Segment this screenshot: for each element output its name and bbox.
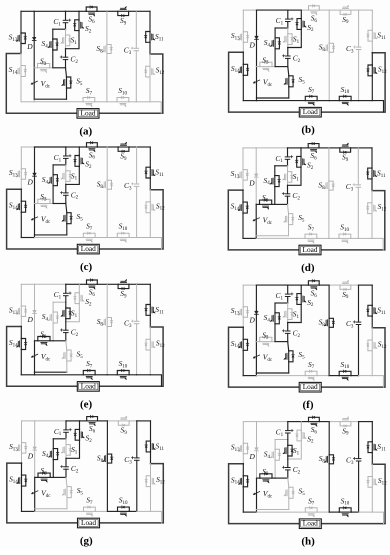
- (g) wire top to diode D: [34, 421, 36, 447]
- (g) wire C3 to bus: [136, 460, 138, 511]
- svg-text:D: D: [248, 316, 255, 325]
- (f) wire mid segment to J2: [275, 341, 288, 343]
- (f) wire top to S2: [300, 285, 302, 294]
- (h) switch S8: [328, 455, 330, 464]
- (e) wire C2 to node J2: [65, 333, 67, 341]
- (f) wire top to S8: [328, 285, 330, 318]
- (h) switch S11: [371, 442, 373, 453]
- (g) wire S11 to node Q: [150, 452, 152, 464]
- (a) wire node N1 to C2: [65, 49, 67, 57]
- (c) wire node Q to S12: [149, 190, 151, 202]
- (h) switch S12: [371, 477, 373, 488]
- (b) wire C2 to node J2: [287, 59, 289, 67]
- (g) wire top rail segment 3: [66, 420, 80, 422]
- (b) wire S5 to inner bottom: [288, 87, 290, 98]
- (d) wire top rail segment 6: [329, 147, 340, 149]
- (b) capacitor C2: [286, 55, 291, 57]
- (h) switch S5: [288, 487, 290, 498]
- (f) diode D: [255, 311, 259, 314]
- (f) switch S14: [242, 339, 244, 350]
- (c) wire node N1 to C2: [65, 184, 67, 192]
- (f) switch S4: [274, 313, 276, 324]
- (g) wire bus segment 2: [35, 510, 84, 512]
- (g) wire inner bottom: [35, 508, 67, 510]
- (d) wire bus segment 4: [329, 237, 339, 239]
- (b) wire top rail segment 5: [319, 9, 329, 11]
- (c) wire top to S2: [78, 147, 80, 156]
- (g) switch S11: [150, 441, 152, 452]
- (h) wire S11 to node Q: [371, 453, 373, 465]
- (g) capacitor C3: [135, 457, 140, 459]
- (h) switch S6: [309, 421, 320, 423]
- (f) wire S12 to bus: [371, 351, 373, 376]
- (c) source Vdc arrow: [32, 217, 38, 220]
- (d) wire Vdc- connector to bus: [255, 236, 257, 239]
- (e) wire left rail upper: [20, 284, 22, 306]
- (b) wire bus segment 5: [351, 100, 359, 102]
- (e) wire bus segment 2: [35, 374, 84, 376]
- (b) wire jog node to S1: [287, 28, 289, 34]
- (d) switch S13: [242, 170, 244, 181]
- (f) wire inner bottom: [256, 372, 288, 374]
- (b) wire node P to S14: [242, 52, 244, 64]
- (e) switch S1: [65, 308, 67, 319]
- (f) wire C2 to node J2: [287, 334, 289, 342]
- (c) wire S12 to bus: [149, 213, 151, 238]
- (b) wire top rail segment 6: [329, 9, 340, 11]
- (g) wire S14 to bus: [21, 486, 23, 511]
- (e) wire Vdc- connector to bus: [34, 372, 36, 375]
- (e) wire top to C3: [136, 284, 138, 321]
- (c) wire S14 to bus: [20, 212, 22, 237]
- (d) wire top rail segment 3: [288, 147, 302, 149]
- svg-text:D: D: [248, 178, 255, 187]
- (e) wire S1 to node N1: [65, 319, 67, 322]
- (h) wire node N1 to C2: [287, 459, 289, 467]
- (g) wire S1 to node N1: [65, 455, 67, 458]
- (a) wire left rail upper: [20, 11, 22, 33]
- (f) wire top rail segment 7: [351, 284, 359, 286]
- (f) switch S2: [300, 294, 302, 305]
- (e) wire node N1 to C2: [65, 322, 67, 330]
- (e) wire S3 node down through Vdc: [34, 341, 36, 372]
- (d) wire C2 to node J2: [287, 196, 289, 204]
- (a) switch S5: [66, 77, 68, 88]
- (b) wire jog to S4: [274, 28, 276, 38]
- (d) switch S4: [274, 176, 276, 187]
- (h) wire D-leg to S3: [257, 477, 260, 479]
- (e) wire output B to load: [99, 327, 163, 386]
- (b) wire S3 to S4 node: [272, 66, 275, 68]
- (e) wire output A to load: [7, 327, 78, 387]
- (c) wire left rail lower: [20, 179, 22, 189]
- (a) wire top rail segment 6: [107, 10, 118, 12]
- (a) wire C1 to jog node: [65, 23, 67, 29]
- (b) wire output A to load: [229, 52, 300, 112]
- (h) wire top rail segment 6: [329, 421, 340, 423]
- (a) switch S8: [106, 45, 108, 54]
- (g) wire top to S8: [106, 421, 108, 454]
- svg-text:Load: Load: [81, 381, 96, 390]
- (h) wire top rail segment 8: [359, 421, 373, 423]
- (f) wire S8 to bus: [328, 327, 330, 375]
- (g) wire D-leg to S3: [35, 476, 38, 478]
- (a) wire bus segment 2: [34, 101, 83, 103]
- (h) wire S4 to node J2: [274, 460, 276, 478]
- (d) wire jog to S4 branch: [275, 165, 288, 167]
- (f) wire left rail lower: [242, 317, 244, 327]
- (g) wire C2 to node J2: [65, 469, 67, 477]
- (e) switch S11: [149, 305, 151, 316]
- (a) switch S10: [117, 101, 129, 103]
- (c) wire D-leg to S3: [35, 203, 38, 205]
- (g) wire S12 to bus: [150, 487, 152, 512]
- (c) wire top rail segment 4: [79, 146, 86, 148]
- (g) wire bus segment 1: [22, 510, 35, 512]
- (c) switch S9: [118, 146, 129, 148]
- (g) wire top to C3: [136, 421, 138, 458]
- (a) wire bus segment 6: [136, 101, 150, 103]
- (h) wire S14 to bus: [242, 487, 244, 512]
- (f) switch S13: [242, 307, 244, 318]
- (e) wire jog to S4 branch: [53, 301, 66, 303]
- (c) capacitor C2: [64, 192, 69, 194]
- (e) wire C3 to bus: [136, 324, 138, 375]
- (a) wire top to S2: [78, 11, 80, 19]
- (a) wire inner bottom: [34, 98, 66, 100]
- (g) wire J2 to S5: [66, 477, 67, 486]
- (g) wire node P to S14: [21, 463, 23, 475]
- (f) wire right rail upper: [371, 285, 373, 305]
- (f) load box: [299, 382, 321, 392]
- (a) wire top rail segment 8: [136, 10, 150, 12]
- (a) capacitor C2: [63, 56, 68, 58]
- (g) switch S8: [106, 454, 108, 463]
- (h) wire C1 to jog node: [287, 434, 289, 440]
- (f) capacitor C3: [356, 321, 361, 323]
- (g) capacitor C1: [64, 429, 69, 431]
- (d) wire S12 to bus: [371, 214, 373, 239]
- (c) wire top rail segment 5: [97, 146, 107, 148]
- (f) wire S3 node down through Vdc: [255, 342, 257, 373]
- (e) switch S8: [106, 318, 108, 327]
- svg-text:Load: Load: [303, 519, 318, 528]
- (b) switch S11: [371, 30, 373, 41]
- (f) wire S4 to node J2: [274, 324, 276, 342]
- (b) wire mid segment to J2: [275, 66, 288, 68]
- (g) wire top rail left segment: [22, 420, 35, 422]
- (d) wire S11 to node Q: [371, 179, 373, 191]
- (a) wire bus segment 4: [107, 101, 117, 103]
- (e) wire bus segment 1: [21, 374, 34, 376]
- (a) wire bus extension: [150, 102, 161, 114]
- (a) source Vdc arrow: [32, 81, 38, 84]
- (a) wire C2 to node J2: [65, 60, 67, 68]
- (g) switch S6: [87, 420, 98, 422]
- (c) switch S3: [38, 203, 50, 205]
- (g) wire jog node to S1: [65, 439, 67, 445]
- (g) wire top to C1: [65, 421, 67, 429]
- (c) switch S5: [66, 213, 68, 224]
- (h) switch S1: [287, 445, 289, 456]
- (f) wire jog to S4 branch: [275, 302, 288, 304]
- (h) wire bus segment 2: [257, 511, 306, 513]
- (b) wire top rail left segment: [243, 9, 256, 11]
- (h) wire jog to S4: [274, 440, 276, 450]
- svg-text:D: D: [26, 42, 33, 51]
- (b) wire top to C3: [358, 10, 360, 47]
- (e) wire top rail segment 7: [129, 283, 137, 285]
- (d) wire node N1 to C2: [287, 185, 289, 193]
- (d) wire C1 to jog node: [287, 160, 289, 166]
- (b) wire top to S8: [328, 10, 330, 43]
- (e) wire top rail segment 4: [79, 283, 86, 285]
- (c) switch S14: [20, 201, 22, 212]
- (a) switch S4: [52, 39, 54, 50]
- (e) wire C1 to jog node: [65, 296, 67, 302]
- (b) wire S12 to bus: [371, 76, 373, 101]
- (e) switch S14: [20, 339, 22, 350]
- (d) wire right rail upper: [371, 148, 373, 168]
- (e) wire jog to S4: [52, 302, 54, 312]
- (e) wire S11 to node Q: [149, 315, 151, 327]
- (b) wire S1 to node N1: [287, 45, 289, 48]
- (f) wire C3 to bus: [358, 325, 360, 376]
- (a) wire top rail segment 4: [79, 10, 86, 12]
- (d) capacitor C2: [285, 193, 290, 195]
- (c) wire jog node to S1: [65, 165, 67, 171]
- (a) wire jog to S4: [52, 29, 54, 39]
- (g) wire top to S2: [79, 421, 81, 430]
- (e) switch S10: [117, 374, 129, 376]
- (b) wire left rail lower: [242, 42, 244, 52]
- (g) wire jog to S4 branch: [53, 438, 66, 440]
- (f) switch S7: [305, 375, 317, 377]
- (d) wire top rail segment 5: [319, 147, 329, 149]
- (g) wire C1 to jog node: [65, 433, 67, 439]
- (d) wire bus segment 2: [256, 237, 305, 239]
- (c) diode D: [33, 173, 37, 176]
- (b) wire Vdc- connector to bus: [256, 98, 258, 101]
- (a) diode D: [32, 37, 36, 40]
- svg-text:(h): (h): [301, 536, 315, 548]
- (e) wire bus segment 5: [129, 374, 137, 376]
- (d) wire bus extension: [372, 238, 383, 250]
- (h) wire bus segment 4: [329, 511, 339, 513]
- (b) switch S12: [371, 65, 373, 76]
- (c) wire node P to S14: [20, 189, 22, 201]
- (d) diode D: [254, 174, 258, 177]
- (f) wire S5 to inner bottom: [288, 362, 290, 373]
- (h) switch S13: [242, 443, 244, 454]
- (d) wire S5 to inner bottom: [288, 225, 290, 236]
- (d) wire top rail left segment: [243, 147, 256, 149]
- (d) switch S3: [260, 203, 272, 205]
- (e) wire S8 to bus: [106, 327, 108, 375]
- (c) wire S11 to node Q: [149, 178, 151, 190]
- (a) wire D-leg to S3: [34, 67, 37, 69]
- (c) wire top to C1: [65, 147, 67, 155]
- (a) wire jog to S4 branch: [53, 28, 66, 30]
- (h) source Vdc arrow: [254, 492, 260, 495]
- (e) wire left rail lower: [20, 317, 22, 327]
- (g) wire output A to load: [7, 463, 78, 523]
- (h) wire S3 node down through Vdc: [256, 478, 258, 509]
- svg-text:Load: Load: [303, 245, 318, 254]
- (c) wire top rail segment 7: [129, 146, 137, 148]
- (g) wire bus segment 3: [95, 510, 107, 512]
- (g) load box: [78, 518, 100, 528]
- (f) wire diode D to S3 node: [255, 315, 257, 342]
- (a) wire S1 to node N1: [65, 46, 67, 49]
- (c) wire bus segment 3: [95, 237, 107, 239]
- (a) wire S2 down and to node N1: [66, 31, 80, 49]
- (b) wire top rail segment 3: [288, 9, 302, 11]
- svg-text:Load: Load: [81, 108, 96, 117]
- (d) wire C3 to bus: [357, 187, 359, 238]
- (d) switch S7: [305, 237, 317, 239]
- (g) wire S2 down and to node N1: [66, 440, 80, 458]
- (g) switch S4: [52, 449, 54, 460]
- (g) wire right rail upper: [150, 421, 152, 441]
- (b) switch S8: [328, 43, 330, 52]
- (a) switch S6: [86, 10, 97, 12]
- (c) switch S7: [83, 237, 95, 239]
- (h) wire top rail segment 7: [351, 421, 359, 423]
- (c) switch S12: [149, 202, 151, 213]
- (f) capacitor C2: [285, 330, 290, 332]
- (h) diode D: [255, 448, 259, 451]
- (b) wire S4 to node J2: [274, 49, 276, 67]
- (h) wire top rail segment 5: [319, 421, 329, 423]
- svg-text:Load: Load: [303, 107, 318, 116]
- (h) capacitor C1: [286, 430, 291, 432]
- (h) wire right rail upper: [371, 422, 373, 442]
- (g) wire S8 to bus: [106, 463, 108, 511]
- (a) wire output B to load: [99, 54, 163, 113]
- (g) switch S12: [150, 476, 152, 487]
- (b) wire D-leg to S3: [257, 66, 260, 68]
- svg-text:(f): (f): [303, 399, 314, 411]
- (h) wire top rail left segment: [243, 421, 256, 423]
- (e) wire top to C1: [65, 284, 67, 292]
- (h) wire output A to load: [229, 464, 300, 524]
- (g) capacitor C2: [64, 466, 69, 468]
- svg-text:D: D: [27, 178, 34, 187]
- svg-text:(a): (a): [79, 125, 92, 137]
- (c) wire right rail upper: [149, 147, 151, 167]
- (d) wire mid segment to J2: [275, 203, 288, 205]
- (b) wire J2 to S5: [288, 67, 289, 76]
- (c) wire S8 to bus: [106, 189, 108, 237]
- (d) wire S14 to bus: [242, 213, 244, 238]
- (f) switch S9: [340, 284, 351, 286]
- svg-text:D: D: [27, 315, 34, 324]
- (c) wire top rail segment 2: [35, 146, 66, 148]
- (a) wire top to C3: [135, 11, 137, 48]
- (f) wire J2 to S5: [288, 342, 289, 351]
- (d) wire S3 node down through Vdc: [255, 204, 257, 235]
- (b) wire jog to S4 branch: [275, 27, 288, 29]
- (d) wire node Q to S12: [371, 191, 373, 203]
- (c) capacitor C1: [64, 155, 69, 157]
- svg-text:(d): (d): [301, 262, 315, 274]
- (b) wire diode D to S3 node: [256, 40, 258, 67]
- (f) wire node P to S14: [242, 327, 244, 339]
- (f) switch S11: [371, 305, 373, 316]
- (a) wire C3 to bus: [135, 51, 137, 102]
- (h) wire left rail upper: [242, 422, 244, 444]
- (e) capacitor C1: [64, 292, 69, 294]
- (c) switch S13: [20, 169, 22, 180]
- (h) wire S8 to bus: [328, 464, 330, 512]
- (f) wire bus segment 1: [243, 375, 256, 377]
- (d) wire diode D to S3 node: [255, 178, 257, 205]
- (d) switch S14: [242, 202, 244, 213]
- (c) wire bus extension: [150, 238, 161, 250]
- (h) wire S3 to S4 node: [272, 477, 275, 479]
- (a) wire top rail left segment: [21, 10, 34, 12]
- (h) wire bus segment 3: [317, 511, 329, 513]
- (d) switch S5: [288, 214, 290, 225]
- (b) wire S11 to node Q: [371, 41, 373, 53]
- (g) wire S3 to S4 node: [50, 476, 53, 478]
- (g) wire bus segment 6: [137, 510, 151, 512]
- (b) wire S14 to bus: [242, 75, 244, 100]
- (a) switch S13: [20, 33, 22, 44]
- (e) wire top to S2: [78, 284, 80, 293]
- (d) switch S6: [308, 147, 319, 149]
- (e) wire bus segment 3: [95, 374, 107, 376]
- (d) switch S9: [340, 147, 351, 149]
- (b) wire top to S2: [300, 10, 302, 18]
- (d) wire inner bottom: [256, 235, 288, 237]
- (c) switch S4: [52, 175, 54, 186]
- (a) switch S3: [38, 67, 50, 69]
- (e) switch S13: [20, 306, 22, 317]
- (b) diode D: [255, 36, 259, 39]
- (a) wire top to S8: [106, 11, 108, 44]
- svg-text:(g): (g): [80, 535, 93, 547]
- (h) wire node P to S14: [242, 464, 244, 476]
- (c) capacitor C3: [134, 183, 139, 185]
- (h) wire mid segment to J2: [275, 477, 288, 479]
- (b) switch S3: [260, 66, 272, 68]
- (h) wire diode D to S3 node: [256, 451, 258, 478]
- svg-text:Load: Load: [81, 244, 96, 253]
- (f) wire bus segment 5: [351, 375, 359, 377]
- (e) capacitor C3: [134, 320, 139, 322]
- (f) wire output A to load: [229, 327, 300, 387]
- (e) wire bus extension: [150, 375, 161, 387]
- (a) wire jog node to S1: [65, 29, 67, 35]
- (h) wire top to S2: [300, 422, 302, 431]
- (b) wire top rail segment 4: [301, 9, 308, 11]
- (c) wire bus segment 6: [137, 237, 151, 239]
- (c) switch S2: [78, 156, 80, 167]
- (a) wire Vdc- connector to bus: [33, 99, 35, 102]
- (d) wire bus segment 5: [351, 237, 359, 239]
- (c) wire inner bottom: [35, 234, 67, 236]
- (b) wire bus segment 3: [317, 100, 329, 102]
- (h) switch S9: [340, 421, 351, 423]
- (b) wire bus segment 1: [243, 100, 256, 102]
- (e) wire node Q to S12: [149, 327, 151, 339]
- (h) wire bus segment 1: [243, 511, 256, 513]
- (c) wire top to diode D: [34, 147, 36, 173]
- (a) wire S3 node down through Vdc: [33, 68, 35, 99]
- (h) wire C2 to node J2: [287, 470, 289, 478]
